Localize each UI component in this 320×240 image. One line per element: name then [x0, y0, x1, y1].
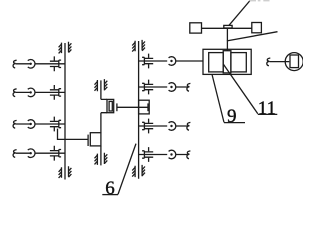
- wire: gear III to layshaft link: [58, 129, 89, 140]
- shaft II break symbol: [13, 89, 17, 97]
- gear on shaft A at wall: [144, 58, 153, 63]
- clutch/coupling on shaft II: [28, 88, 35, 97]
- clutch/coupling on shaft C: [169, 122, 176, 131]
- clutch/coupling on shaft III: [28, 120, 35, 129]
- mesh bar (left end): [116, 103, 118, 111]
- bearing support (shaft V bottom): [97, 153, 104, 165]
- wire: handwheel shaft: [270, 61, 290, 63]
- handwheel break symbol: [267, 58, 271, 66]
- pulley (left square): [190, 23, 202, 33]
- label 6 underline: [102, 194, 118, 196]
- clutch/coupling on shaft IV: [28, 149, 35, 158]
- gear on shaft I at wall: [50, 61, 59, 66]
- middle shaft V (vertical): [100, 80, 102, 165]
- shaft I break symbol: [13, 60, 17, 68]
- gear on shaft D at wall: [144, 152, 153, 157]
- wire: shaft B line: [139, 86, 188, 88]
- sliding gear block on shaft V (upper): [101, 99, 107, 112]
- shaft IV break symbol: [13, 150, 17, 158]
- clutch/coupling on shaft A: [169, 57, 176, 66]
- gear on shaft B at wall: [144, 84, 153, 89]
- wire: shaft A to clutch box: [139, 60, 203, 62]
- clutch/coupling on shaft I: [28, 60, 35, 69]
- wire: top shaft: [202, 27, 252, 29]
- clutch centre sleeve: [223, 51, 231, 73]
- handwheel inner block: [290, 55, 299, 68]
- clutch box outer housing: [203, 49, 251, 74]
- key block on top shaft: [224, 25, 232, 28]
- shaft III break symbol: [13, 120, 17, 128]
- cut-off label remnant at top edge: [250, 0, 270, 1]
- handwheel circle: [285, 53, 303, 71]
- wire: shaft II line: [16, 91, 65, 93]
- wire: vertical spindle into clutch: [226, 28, 228, 50]
- wire: shaft III line: [16, 123, 65, 125]
- housing wall (left): [64, 43, 66, 180]
- clutch left element: [209, 53, 224, 72]
- bearing support (wall L1 top): [62, 42, 69, 53]
- gear block on shaft V (lower): [90, 133, 101, 146]
- bearing support (shaft V top): [97, 79, 104, 91]
- shaft C break symbol: [187, 122, 191, 130]
- housing wall (right) / shaft VI: [138, 41, 140, 179]
- wire: spline link shaft V to shaft VI: [117, 106, 148, 108]
- clutch right element: [231, 53, 246, 72]
- label 9 underline: [224, 122, 245, 124]
- clutch/coupling on shaft D: [169, 150, 176, 159]
- wire: shaft IV line: [16, 152, 65, 154]
- svg-text:9: 9: [227, 106, 237, 127]
- leader line for label 6: [118, 144, 136, 195]
- wire: shaft D line: [139, 154, 188, 156]
- clutch/coupling on shaft B: [169, 83, 176, 92]
- leader line for label 11: [223, 64, 257, 113]
- leader line (to cut label above): [229, 0, 251, 25]
- label 11 underline: [258, 113, 278, 115]
- shaft B break symbol: [187, 83, 191, 91]
- gear on shaft II at wall: [50, 90, 59, 95]
- shaft D break symbol: [187, 151, 191, 159]
- svg-text:11: 11: [258, 98, 276, 119]
- bearing support (wall L1 bottom): [62, 166, 69, 177]
- gear on shaft C at wall: [144, 123, 153, 128]
- mesh bar (right end): [147, 103, 149, 111]
- sliding gear block on shaft VI: [139, 100, 150, 114]
- leader line (shallow, to right): [227, 32, 278, 41]
- gear on shaft III at wall: [50, 121, 59, 126]
- mesh bar at link end: [87, 135, 89, 146]
- pulley (right square): [252, 23, 262, 33]
- bearing support (wall R1 bottom): [135, 165, 142, 177]
- wire: shaft C line: [139, 125, 188, 127]
- gear on shaft IV at wall: [50, 151, 59, 156]
- bearing support (wall R1 top): [135, 40, 142, 51]
- wire: shaft I line: [16, 63, 65, 65]
- leader line for label 9: [212, 74, 224, 122]
